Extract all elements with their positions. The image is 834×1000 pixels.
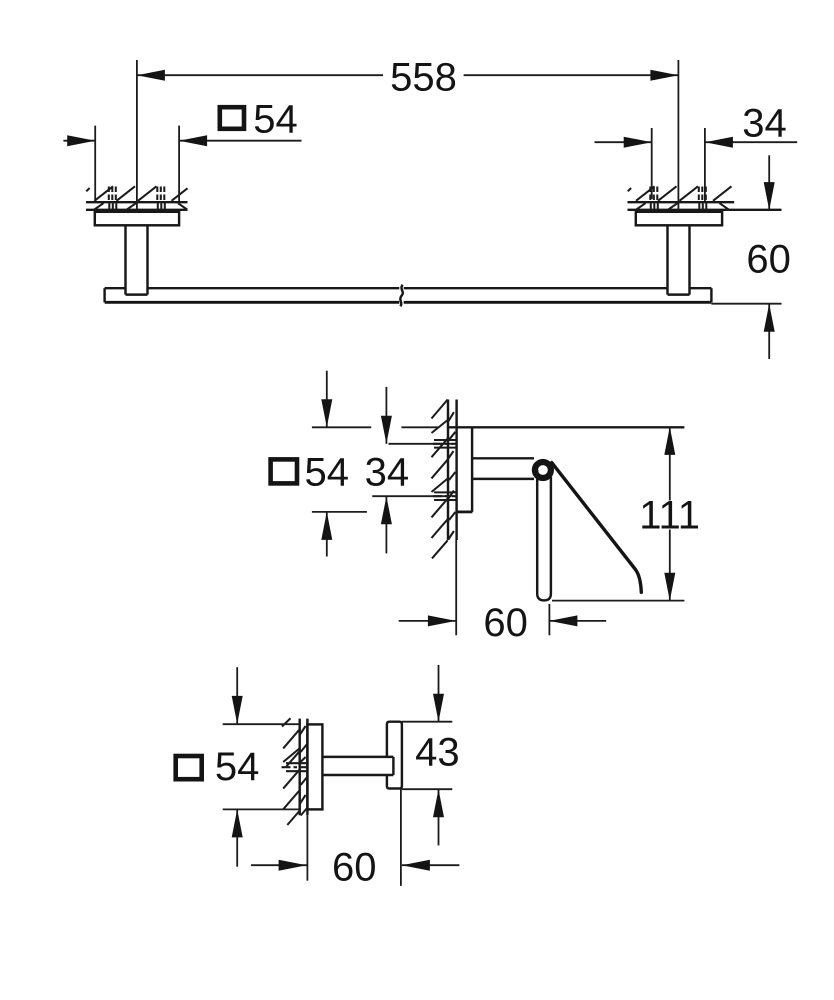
svg-text:54: 54 bbox=[215, 745, 260, 789]
svg-text:34: 34 bbox=[365, 450, 410, 494]
svg-text:54: 54 bbox=[253, 98, 298, 142]
svg-text:43: 43 bbox=[415, 730, 460, 774]
svg-text:60: 60 bbox=[483, 601, 528, 645]
svg-text:60: 60 bbox=[332, 845, 377, 889]
svg-text:34: 34 bbox=[742, 102, 787, 146]
svg-text:558: 558 bbox=[390, 56, 457, 100]
svg-text:111: 111 bbox=[639, 493, 700, 537]
svg-text:60: 60 bbox=[746, 237, 791, 281]
svg-text:54: 54 bbox=[305, 450, 350, 494]
